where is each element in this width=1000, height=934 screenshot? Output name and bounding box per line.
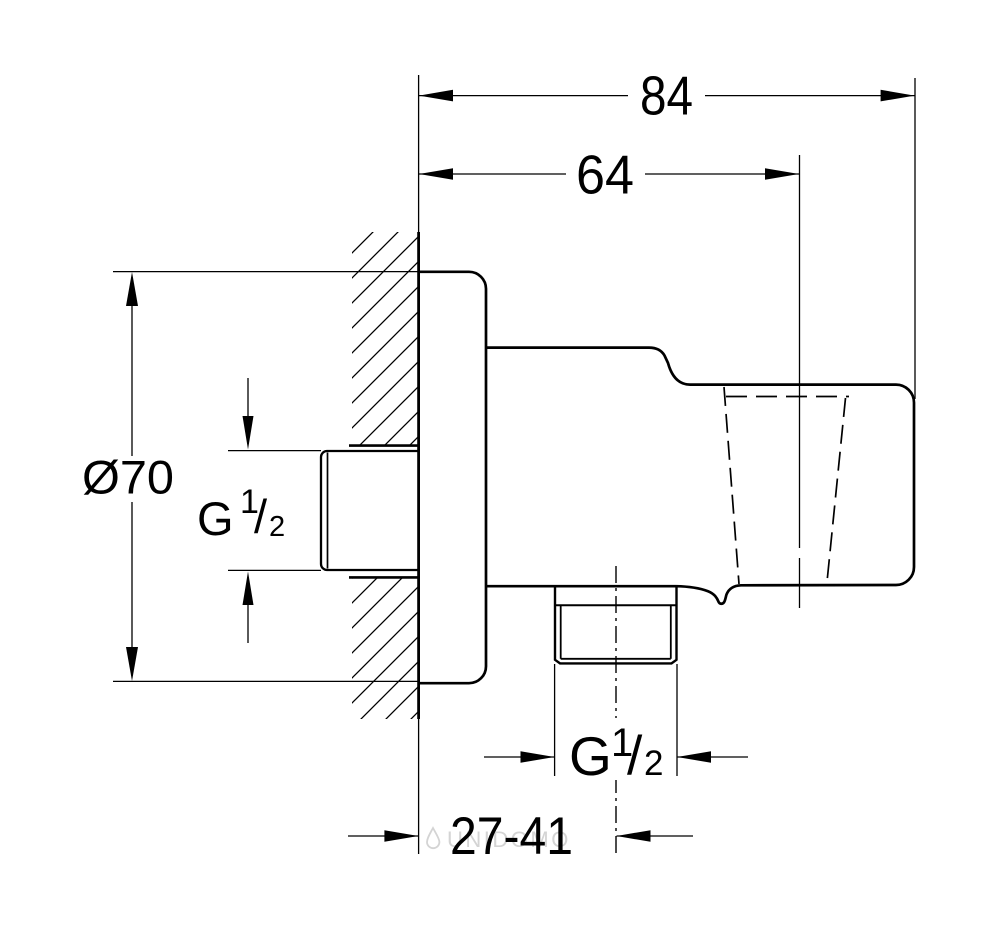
socket extension line bottom [228, 569, 321, 571]
G1/2 socket box left [321, 451, 419, 570]
dimension 27-41 [348, 807, 693, 866]
body neck bottom line [486, 585, 676, 588]
hidden cone top dashed line [726, 396, 849, 398]
nipple extension line right [676, 664, 678, 776]
svg-text:84: 84 [640, 65, 693, 127]
nipple extension line left [554, 664, 556, 776]
body neck top line [486, 348, 690, 385]
wall hatching upper band [352, 232, 419, 446]
wall hole upper edge [349, 444, 419, 447]
extension line dia70 top [113, 271, 419, 273]
hidden cone right dashed line [827, 398, 846, 582]
nipple centerline [615, 566, 617, 854]
hidden cone left dashed line [724, 387, 739, 584]
svg-text:2: 2 [644, 744, 663, 783]
svg-text:27-41: 27-41 [450, 807, 573, 866]
label G1/2 left [197, 483, 285, 545]
svg-text:64: 64 [576, 144, 634, 206]
wall hole lower edge [349, 576, 419, 579]
svg-text:/: / [254, 490, 268, 543]
extension line dia70 bottom [113, 680, 419, 682]
wall line lower thin segment [418, 719, 420, 854]
dimension dia70 [82, 272, 174, 681]
svg-text:Ø70: Ø70 [82, 451, 174, 504]
wall surface line [417, 232, 420, 719]
svg-text:/: / [627, 724, 643, 786]
holder body outline [676, 385, 914, 604]
svg-text:2: 2 [269, 511, 285, 543]
socket extension line top [228, 450, 321, 452]
nipple outlet outline [555, 586, 677, 663]
wall hatching lower band [352, 578, 419, 720]
dimension 84 [419, 65, 915, 400]
escutcheon flange outline [419, 272, 486, 683]
socket arrow upper [243, 378, 254, 450]
watermark [427, 827, 571, 852]
dimension G1/2 bottom [484, 718, 748, 787]
dimension 64 [419, 144, 800, 609]
svg-text:G: G [197, 492, 234, 545]
socket arrow lower [243, 572, 254, 644]
svg-text:G: G [569, 725, 612, 787]
